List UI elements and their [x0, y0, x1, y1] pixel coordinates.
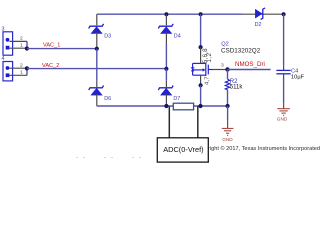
svg-text:D2: D2 — [255, 22, 262, 28]
svg-text:2: 2 — [20, 62, 23, 68]
node VAC_2 / D4 junction — [164, 67, 168, 71]
svg-text:GND: GND — [222, 137, 233, 142]
diode D3 pin up — [96, 14, 98, 25]
node VAC_1 / D3 junction — [95, 47, 99, 51]
diode D6 — [89, 86, 111, 102]
wire Q2 source to bottom rail — [200, 85, 202, 106]
svg-text:511k: 511k — [230, 85, 244, 91]
svg-text:VAC_1: VAC_1 — [43, 43, 60, 49]
wire gate node to R2 — [227, 70, 229, 80]
svg-text:VAC_2: VAC_2 — [42, 63, 59, 69]
faint dashed page border line — [76, 157, 214, 159]
wire bottom rail — [97, 105, 228, 107]
connector J4 — [2, 56, 13, 81]
capacitor C4 — [276, 69, 304, 81]
node J4 output junction — [25, 66, 29, 70]
node Q2 source pin end — [199, 83, 203, 87]
node J3 output junction — [25, 46, 29, 50]
pin 3 of Q2 (gate) — [213, 69, 228, 71]
diode D4 pin up — [165, 14, 167, 25]
pin 1 of J3 — [10, 47, 28, 49]
pin 1 of J4 — [10, 74, 28, 76]
wire D3 to D6 — [96, 49, 98, 81]
svg-text:D7: D7 — [173, 96, 180, 102]
node gate junction — [225, 67, 229, 71]
wire NMOS_Dri stub — [228, 69, 271, 71]
svg-text:D6: D6 — [104, 96, 111, 102]
diode D3 — [89, 24, 111, 40]
svg-text:1: 1 — [20, 70, 23, 76]
diode D7 pin down to rail — [165, 94, 167, 106]
svg-text:CSD13202Q2: CSD13202Q2 — [221, 47, 261, 54]
wire top rail — [97, 13, 242, 15]
svg-text:1,2: 1,2 — [206, 53, 213, 63]
svg-text:D3: D3 — [104, 34, 111, 40]
pin 5,6,8 of Q2 (drain) — [200, 47, 202, 63]
wire R2 to bottom rail — [227, 90, 229, 106]
svg-text:NMOS_Dri: NMOS_Dri — [235, 61, 265, 68]
diode D4 pin down — [165, 32, 167, 44]
wire ADC right stub — [197, 106, 199, 138]
svg-text:ADC(0-Vref): ADC(0-Vref) — [163, 145, 203, 154]
wire Q2 drain branch — [200, 14, 202, 47]
ground GND (left) — [222, 121, 234, 136]
node top rail / Q2 drain branch — [199, 12, 203, 16]
svg-text:10µF: 10µF — [291, 75, 305, 81]
resistor (shunt box) in bottom rail — [173, 103, 193, 110]
svg-text:4,7: 4,7 — [205, 76, 211, 85]
wire ADC left stub — [168, 106, 170, 138]
resistor R2 — [225, 79, 229, 90]
node top rail / D4 branch — [164, 12, 168, 16]
transistor Q2 CSD13202Q2 — [191, 63, 213, 76]
node bottom rail / D7 — [164, 104, 168, 108]
wire VAC_1 — [27, 48, 97, 50]
wire C4 branch down — [283, 14, 285, 65]
wire jog J4 pin1 to node — [26, 68, 28, 75]
diode D7 — [158, 86, 180, 102]
diode D4 — [158, 24, 180, 40]
node top-right corner junction — [282, 12, 286, 16]
wire jog J3 pin2 to node — [26, 41, 28, 48]
svg-text:1: 1 — [20, 42, 23, 48]
wire top rail right segment (D2 pins) — [242, 13, 284, 15]
node Q2 drain pins junction — [199, 45, 203, 49]
node bottom rail / R2 / GND — [226, 104, 230, 108]
svg-text:D4: D4 — [174, 34, 181, 40]
pin 2 of J3 — [10, 40, 28, 42]
connector J3 — [2, 26, 13, 55]
pin 4,7 of Q2 (source) — [200, 75, 202, 85]
ground GND (right, under C4) — [277, 103, 290, 115]
svg-text:3: 3 — [221, 63, 224, 69]
wire C4 to ground — [283, 74, 285, 78]
wire D4 to D7 — [165, 69, 167, 81]
wire VAC_2 — [27, 68, 167, 70]
svg-text:2: 2 — [20, 36, 23, 42]
pin 2 of J4 — [10, 67, 28, 69]
diode D2 — [255, 8, 265, 28]
svg-text:Copyright © 2017, Texas Instru: Copyright © 2017, Texas Instruments Inco… — [195, 145, 320, 152]
diode D3 pin down — [96, 32, 98, 48]
ADC block — [157, 138, 208, 162]
svg-text:GND: GND — [277, 117, 288, 122]
node bottom rail / Q2 source — [198, 104, 202, 108]
wire GND drop — [227, 106, 229, 121]
diode D6 pin down to rail — [96, 94, 98, 106]
